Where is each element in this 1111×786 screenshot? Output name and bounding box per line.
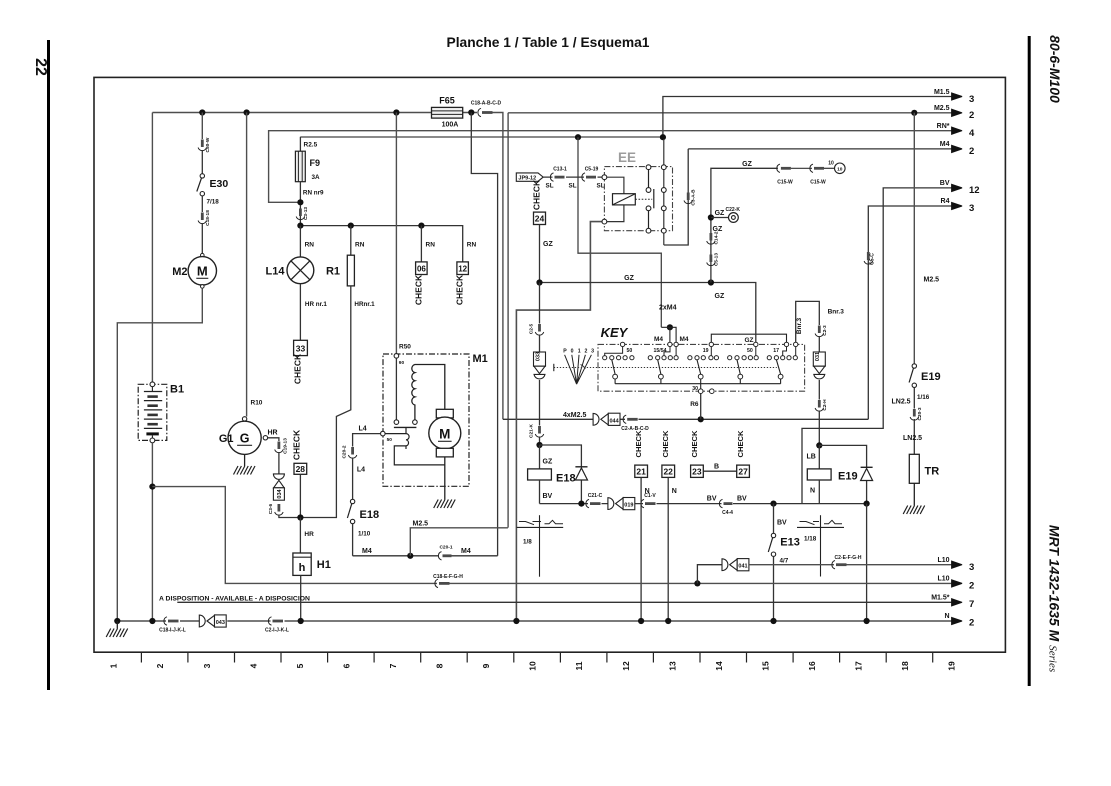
check box 12 <box>457 262 469 275</box>
svg-text:R50: R50 <box>399 344 411 351</box>
generator G1 <box>242 417 246 421</box>
node HR junction <box>297 514 303 520</box>
svg-text:RN: RN <box>467 242 477 249</box>
wire F9 bottom <box>299 182 301 223</box>
svg-text:M4: M4 <box>362 548 372 555</box>
wire 4xM2.5 rail <box>503 418 868 420</box>
svg-text:A DISPOSITION - AVAILABLE - A: A DISPOSITION - AVAILABLE - A DISPOSICIO… <box>159 596 310 603</box>
solenoid contact <box>394 426 417 428</box>
svg-text:CHECK: CHECK <box>690 430 699 458</box>
svg-text:4xM2.5: 4xM2.5 <box>563 412 586 419</box>
connector C14-2 <box>710 233 713 241</box>
node L10 branch <box>694 580 700 586</box>
svg-text:F65: F65 <box>439 96 455 106</box>
svg-text:0: 0 <box>571 349 574 355</box>
EE RELAY <box>602 139 697 245</box>
svg-text:17: 17 <box>773 348 779 354</box>
starter box M1 <box>383 354 469 486</box>
svg-text:TR: TR <box>925 466 940 478</box>
svg-text:21: 21 <box>636 467 646 477</box>
svg-text:H1: H1 <box>317 559 331 571</box>
key terminals <box>620 342 624 346</box>
terminal EE coil in <box>602 175 607 180</box>
svg-text:7: 7 <box>969 599 974 610</box>
check box 06 <box>416 262 428 275</box>
wire HR to connector <box>268 438 279 441</box>
svg-text:C18-I-J-K-L: C18-I-J-K-L <box>159 628 186 634</box>
svg-text:C3-6: C3-6 <box>268 503 274 514</box>
svg-text:90: 90 <box>399 360 405 366</box>
svg-text:C2-E-F-G-H: C2-E-F-G-H <box>835 555 862 561</box>
wire M4 line <box>353 555 498 557</box>
svg-text:019: 019 <box>624 503 633 509</box>
svg-text:E19: E19 <box>838 471 858 483</box>
svg-text:GZ: GZ <box>744 337 753 344</box>
svg-text:GZ: GZ <box>742 161 752 168</box>
svg-text:5: 5 <box>295 663 305 668</box>
svg-text:17: 17 <box>854 661 864 671</box>
wire BV rail <box>540 503 867 505</box>
svg-text:2: 2 <box>969 618 974 629</box>
connector C50-W <box>201 140 204 148</box>
wire B1 branch to L10 rail <box>152 487 437 584</box>
svg-text:L14: L14 <box>266 266 286 278</box>
connector C5-C <box>867 252 870 260</box>
wire Bnr.3 <box>796 301 820 342</box>
svg-text:30: 30 <box>692 386 698 392</box>
node E18 coil <box>539 437 541 446</box>
wire E19 switch feed <box>913 113 915 364</box>
node F9 out <box>297 199 303 205</box>
svg-text:4: 4 <box>969 128 975 139</box>
svg-text:16: 16 <box>807 661 817 671</box>
svg-text:044: 044 <box>610 418 620 424</box>
wire R1 drop <box>350 226 352 256</box>
switch E13 <box>773 504 775 534</box>
svg-text:15: 15 <box>760 661 770 671</box>
svg-text:LB: LB <box>807 454 816 461</box>
svg-text:034: 034 <box>277 488 283 498</box>
svg-text:3: 3 <box>202 663 212 668</box>
svg-text:4: 4 <box>248 663 258 668</box>
connector C5-13 <box>710 255 713 263</box>
schematic frame <box>94 77 1005 652</box>
svg-text:12: 12 <box>458 265 467 274</box>
svg-text:Bnr.3: Bnr.3 <box>828 308 845 315</box>
wire 2xM4 to terminals <box>661 327 676 342</box>
svg-text:7: 7 <box>388 663 398 668</box>
wire TR ground <box>913 483 915 505</box>
RIGHT AREA <box>768 113 940 620</box>
svg-text:CHECK: CHECK <box>532 179 542 210</box>
wire to flag 034 <box>278 452 280 474</box>
svg-text:80-6-M100: 80-6-M100 <box>1047 35 1063 103</box>
svg-text:2: 2 <box>585 349 588 355</box>
node RN L14 <box>297 223 303 229</box>
svg-text:RN nr9: RN nr9 <box>303 189 324 196</box>
node 2xM4 <box>667 324 673 330</box>
wire to TR <box>913 419 915 454</box>
fuse F65 <box>432 107 463 118</box>
svg-text:RN: RN <box>305 242 315 249</box>
svg-text:06: 06 <box>417 265 426 274</box>
arrow L10 2 <box>952 580 963 587</box>
arrow M1.5* 7 <box>952 599 963 606</box>
M1 STARTER <box>342 344 508 561</box>
svg-text:9: 9 <box>481 663 491 668</box>
wire B1 feed <box>151 113 153 383</box>
svg-text:2xM4: 2xM4 <box>659 305 677 312</box>
svg-text:L4: L4 <box>357 467 365 474</box>
wire L14 to box 33 <box>299 284 301 341</box>
svg-text:E13: E13 <box>780 537 800 549</box>
actuator link <box>635 198 652 200</box>
wire 19-17 link <box>711 334 786 342</box>
svg-text:G: G <box>240 432 250 446</box>
svg-text:22: 22 <box>32 58 49 76</box>
svg-text:7/18: 7/18 <box>207 199 220 206</box>
coil EE <box>607 177 624 221</box>
svg-text:11: 11 <box>574 661 584 670</box>
switch E30 <box>200 174 204 178</box>
svg-text:043: 043 <box>216 620 225 626</box>
left margin bar <box>47 40 50 690</box>
key wipers <box>612 360 781 374</box>
diode E18 <box>540 445 582 504</box>
MIDDLE <box>503 167 868 620</box>
wire M4 output <box>688 148 952 150</box>
wire E18 to M4 line <box>352 524 354 556</box>
svg-text:19: 19 <box>947 661 957 671</box>
wire N bus <box>117 620 952 622</box>
svg-text:R6: R6 <box>690 401 699 408</box>
svg-text:23: 23 <box>692 467 702 477</box>
wire E13 to N bus <box>773 556 775 620</box>
FRAME AND SCALE <box>94 77 1005 670</box>
wire top supply bus <box>152 112 477 114</box>
svg-text:C21-K: C21-K <box>528 424 534 438</box>
svg-text:B: B <box>714 464 719 471</box>
pressure switch 1/8 <box>519 522 541 525</box>
svg-text:CHECK: CHECK <box>661 430 670 458</box>
wire M2.5 link <box>410 528 508 556</box>
svg-text:HRnr.1: HRnr.1 <box>354 301 375 308</box>
terminal 50 <box>381 431 386 436</box>
connector C15-W b <box>810 164 813 172</box>
svg-text:R10: R10 <box>251 400 263 407</box>
svg-text:50: 50 <box>387 437 393 443</box>
svg-text:HR: HR <box>268 430 278 437</box>
svg-text:C2-3: C2-3 <box>822 325 828 336</box>
wire C18 to drop <box>493 113 503 420</box>
wire battery feed jog <box>471 113 497 556</box>
svg-text:C14-2: C14-2 <box>714 231 720 244</box>
connector C18-E-F-G-H <box>435 579 438 587</box>
connector C1-V <box>641 499 644 507</box>
svg-text:8: 8 <box>435 663 445 668</box>
svg-text:C13-1: C13-1 <box>553 167 567 173</box>
svg-text:12: 12 <box>621 661 631 671</box>
node link-2xM4 <box>575 134 581 140</box>
node diode E19 <box>864 501 870 507</box>
svg-text:CHECK: CHECK <box>736 430 745 458</box>
svg-text:B1: B1 <box>170 384 184 396</box>
svg-text:33: 33 <box>296 344 306 354</box>
svg-text:M: M <box>197 264 208 279</box>
lamp L14 <box>287 257 314 284</box>
TOP AREA <box>152 89 979 556</box>
arrow M1.5 3 <box>952 93 963 100</box>
wire node to H1 <box>299 518 301 554</box>
fuse F9 drop <box>299 137 301 151</box>
wire GZ lamp branch <box>711 168 778 282</box>
svg-text:C2-H: C2-H <box>822 399 828 411</box>
node C22-K <box>708 214 714 220</box>
wire R4 output <box>868 206 952 419</box>
connector C21-C <box>586 499 589 507</box>
svg-text:C20-1: C20-1 <box>439 545 452 551</box>
switch E18 <box>350 499 354 503</box>
ground main <box>114 618 120 624</box>
connector C13-1 <box>550 173 553 181</box>
wire 033 to C21-K <box>539 380 541 426</box>
svg-text:28: 28 <box>296 464 306 474</box>
wire lamp L14 drop <box>299 226 301 257</box>
connector C18-A-B-C-D <box>478 108 481 116</box>
svg-text:SL: SL <box>569 182 577 189</box>
svg-text:1/18: 1/18 <box>804 536 817 543</box>
svg-text:Bnr.3: Bnr.3 <box>796 317 803 334</box>
svg-text:1/16: 1/16 <box>917 394 930 401</box>
svg-text:N: N <box>672 488 677 495</box>
svg-text:22: 22 <box>663 467 673 477</box>
node RN R1 <box>348 223 354 229</box>
svg-text:C18-E-F-G-H: C18-E-F-G-H <box>433 574 463 580</box>
svg-text:C5-13: C5-13 <box>714 253 720 266</box>
wire R1 to node jog <box>303 286 351 518</box>
svg-text:C18-18: C18-18 <box>205 210 211 226</box>
svg-text:KEY: KEY <box>601 325 629 340</box>
wire 28 to node <box>299 474 301 517</box>
wire 30 to R6 node <box>700 384 702 389</box>
connector C15-W a <box>777 164 780 172</box>
wire E30 top <box>201 113 203 140</box>
svg-text:N: N <box>944 613 949 620</box>
svg-text:50: 50 <box>627 348 633 354</box>
svg-text:1: 1 <box>578 349 581 355</box>
node bus R50 <box>393 109 399 115</box>
svg-text:C3-A-B: C3-A-B <box>691 189 697 206</box>
wire to motor M2 <box>201 223 203 254</box>
svg-text:CHECK: CHECK <box>413 274 423 305</box>
connector C2-I-J-K-L <box>268 617 271 625</box>
svg-text:13: 13 <box>667 661 677 671</box>
arrow M4 2 <box>952 145 963 152</box>
svg-text:Planche 1 / Table 1 / Esquema1: Planche 1 / Table 1 / Esquema1 <box>447 35 650 50</box>
svg-text:24: 24 <box>535 214 545 224</box>
svg-text:M: M <box>439 427 450 442</box>
relay coil E19 <box>818 445 820 469</box>
LEFT COLUMN <box>117 109 437 620</box>
connector C22-K <box>711 217 728 219</box>
svg-text:3: 3 <box>591 349 594 355</box>
connector C18-18 <box>201 213 204 221</box>
connector C2-5 <box>538 324 541 332</box>
svg-text:100A: 100A <box>442 122 459 129</box>
node E13 N <box>770 618 776 624</box>
flag 043 <box>199 615 205 627</box>
contact EE lower <box>646 206 651 211</box>
node H1 N <box>298 618 304 624</box>
node B1 branch <box>149 484 155 490</box>
svg-text:LN2.5: LN2.5 <box>903 435 922 442</box>
battery B1 <box>138 384 167 440</box>
svg-text:CHECK: CHECK <box>291 429 301 460</box>
wire GZ rail <box>540 283 756 343</box>
node EE return N <box>513 618 519 624</box>
wire to flag 033 <box>539 335 541 353</box>
svg-text:HR nr.1: HR nr.1 <box>305 301 328 308</box>
BOTTOM AREA <box>106 555 974 637</box>
svg-text:C18-A-B-C-D: C18-A-B-C-D <box>471 101 502 107</box>
svg-text:N: N <box>645 488 650 495</box>
column scale ticks <box>141 652 932 662</box>
svg-text:2: 2 <box>155 663 165 668</box>
node R6 <box>698 416 704 422</box>
RN DISTRIBUTION <box>266 113 477 621</box>
svg-text:18: 18 <box>900 661 910 671</box>
ground M1 <box>434 500 456 509</box>
arrow M2.5 2 <box>952 109 963 116</box>
node E19 coil <box>818 411 820 446</box>
svg-text:15/54: 15/54 <box>654 348 667 354</box>
svg-text:1/8: 1/8 <box>523 539 532 546</box>
connector C20-2 <box>351 447 354 455</box>
wire to L10 3 arrow <box>847 564 952 566</box>
svg-text:C50-W: C50-W <box>205 137 211 152</box>
wire fuse link line <box>300 136 663 138</box>
svg-text:BV: BV <box>940 180 950 187</box>
check box 33 <box>294 340 308 355</box>
svg-text:14: 14 <box>714 661 724 671</box>
svg-text:C19-13: C19-13 <box>283 438 289 454</box>
svg-text:M4: M4 <box>680 336 689 343</box>
svg-text:1/10: 1/10 <box>358 531 371 538</box>
motor M2 <box>201 253 205 257</box>
wire motor ground <box>444 457 446 500</box>
connector C3-13 <box>299 209 302 217</box>
svg-text:R1: R1 <box>326 266 340 278</box>
connector C19-13 <box>277 442 280 450</box>
node bus G1 <box>244 109 250 115</box>
terminal links <box>605 347 796 356</box>
svg-text:C20-2: C20-2 <box>342 445 348 458</box>
wire switch to C18-18 <box>201 196 203 212</box>
svg-text:EE: EE <box>618 150 636 165</box>
svg-text:N: N <box>810 488 815 495</box>
node GZ west <box>536 279 542 285</box>
wire <box>791 167 812 169</box>
svg-text:1: 1 <box>109 663 119 668</box>
resistor R1 <box>347 255 354 286</box>
wire H1 to N bus <box>300 575 302 620</box>
right margin rule upper <box>1028 36 1031 686</box>
connector C2-E-F-G-H <box>832 561 835 569</box>
node E19 N <box>864 618 870 624</box>
svg-text:CHECK: CHECK <box>634 430 643 458</box>
svg-text:M2.5: M2.5 <box>413 520 429 527</box>
wire RN* output <box>269 131 952 203</box>
wire L10 3 branch <box>697 565 721 584</box>
svg-text:L10: L10 <box>937 576 949 583</box>
node M4-M2.5 <box>407 553 413 559</box>
wire R50 inside <box>395 358 397 420</box>
svg-text:2: 2 <box>969 110 974 121</box>
PAGE FURNITURE <box>32 35 1063 690</box>
horn H1 <box>293 553 311 575</box>
flag 034 <box>273 474 284 480</box>
connector C2-H <box>818 400 821 408</box>
wire 041 to connector <box>749 564 834 566</box>
arrow N 2 <box>952 617 963 624</box>
relay box EE <box>604 167 672 231</box>
node RN 06 <box>418 223 424 229</box>
wire 06 drop <box>420 226 422 262</box>
wire EE to M4 out <box>664 149 688 245</box>
svg-text:M4: M4 <box>940 141 950 148</box>
svg-text:h: h <box>299 562 306 574</box>
svg-text:C5-19: C5-19 <box>585 167 599 173</box>
svg-text:E18: E18 <box>360 509 380 521</box>
relay coil E18 <box>539 445 541 469</box>
svg-text:M2.5: M2.5 <box>934 105 950 112</box>
wire EE coil return <box>516 222 604 620</box>
svg-text:C2-I-J-K-L: C2-I-J-K-L <box>265 628 289 634</box>
connector C2-A-B-C-D <box>623 415 626 423</box>
svg-text:C15-W: C15-W <box>777 179 793 185</box>
wire RN rail <box>300 226 462 262</box>
svg-text:LN2.5: LN2.5 <box>892 399 911 406</box>
svg-text:GZ: GZ <box>715 210 725 217</box>
wire M2 to ground rail <box>117 288 202 620</box>
terminal 30 <box>698 389 703 394</box>
GZ NET <box>517 160 867 620</box>
svg-text:P: P <box>563 349 567 355</box>
svg-text:2: 2 <box>969 146 974 157</box>
wire 2xM4 drop <box>578 137 661 327</box>
svg-text:3: 3 <box>969 562 974 573</box>
svg-text:C22-K: C22-K <box>726 207 741 213</box>
connector C18-I-J-K-L <box>164 617 167 625</box>
svg-text:CHECK: CHECK <box>455 274 465 305</box>
resistor TR <box>909 454 919 483</box>
svg-text:M1.5*: M1.5* <box>931 595 950 602</box>
svg-text:RN: RN <box>426 242 436 249</box>
pressure switch 1/18 <box>800 522 820 525</box>
svg-text:C21-C: C21-C <box>588 493 603 499</box>
svg-text:4/7: 4/7 <box>780 558 789 565</box>
wire to switch E18 <box>352 458 354 500</box>
svg-text:SL: SL <box>597 182 605 189</box>
wire M1.5 output <box>663 97 952 138</box>
node GZ east <box>708 279 714 285</box>
wire L10 2 line <box>450 582 952 584</box>
KEY SWITCH <box>554 305 805 420</box>
wire GZ riser <box>539 283 541 324</box>
wire B1 to bottom <box>151 443 153 620</box>
svg-text:L4: L4 <box>359 426 367 433</box>
fuse F9 <box>295 151 305 182</box>
